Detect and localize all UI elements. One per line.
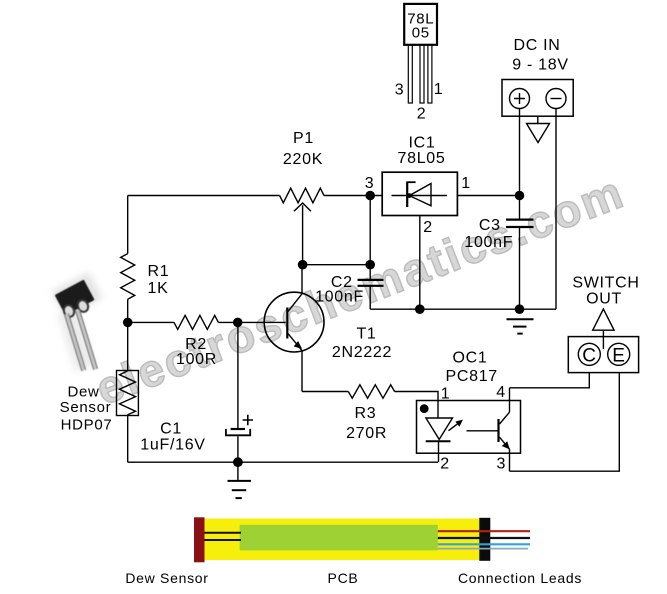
wire top rail: [128, 195, 280, 197]
label IC1 pin 2: [423, 219, 433, 236]
label R2 100R: [176, 336, 217, 368]
svg-text:1: 1: [434, 81, 444, 98]
DC IN terminal block: [502, 80, 573, 117]
label R1 1K: [148, 263, 170, 297]
label dew sensor HDP07: [60, 384, 113, 434]
wire sensor bottom to rail: [127, 416, 129, 463]
78L05 package outline: [404, 4, 437, 45]
OC1 internal LED: [426, 418, 453, 462]
svg-text:DC IN: DC IN: [513, 37, 560, 54]
caption Dew Sensor: [125, 570, 208, 586]
OC1 LED emission arrow: [449, 420, 463, 431]
wire OC1 pin3 to switch E: [510, 373, 620, 472]
IC regulator U IC1 box: [382, 172, 457, 215]
capacitor C3: [506, 196, 534, 310]
svg-text:1K: 1K: [148, 280, 169, 297]
svg-text:4: 4: [496, 384, 506, 401]
label SWITCH OUT: [572, 275, 639, 308]
wire ground rail: [370, 308, 556, 310]
label OC1 pin 1: [441, 386, 451, 403]
ground below C1: [228, 462, 252, 498]
wire IC1 pin1 to DC+ node: [457, 195, 519, 197]
label package pin 3: [395, 82, 405, 99]
plus symbol DC+: [514, 93, 525, 104]
ground below C3: [507, 319, 534, 333]
svg-text:OC1: OC1: [453, 350, 488, 367]
svg-text:100nF: 100nF: [464, 234, 513, 251]
svg-text:C: C: [582, 346, 596, 367]
caption PCB: [328, 570, 359, 586]
PCB body yellow: [205, 519, 480, 561]
PCB sensor end cap maroon: [194, 517, 205, 562]
svg-text:Dew Sensor: Dew Sensor: [125, 570, 208, 586]
wire wiper node to C2: [303, 264, 371, 266]
label T1 2N2222: [332, 326, 392, 362]
label C2 100nF: [315, 274, 364, 306]
wire node to R2: [128, 321, 174, 323]
IC1 internal diode symbol: [392, 182, 447, 208]
78L05 package pins: [408, 45, 432, 103]
svg-text:2: 2: [440, 456, 450, 473]
resistor R1: [121, 254, 135, 300]
wire DC- down to ground rail: [555, 109, 557, 310]
svg-text:1: 1: [441, 386, 451, 403]
label C1 1uF/16V: [140, 421, 205, 454]
svg-text:C1: C1: [160, 421, 182, 438]
svg-text:P1: P1: [293, 130, 314, 147]
label package pin 2: [417, 106, 427, 123]
svg-text:IC1: IC1: [409, 135, 436, 152]
wire OC1 pin4 to switch C: [510, 373, 590, 388]
wire bottom rail: [128, 461, 438, 463]
node IC1 pin2 ground: [415, 304, 425, 314]
wire R2 right to node: [218, 321, 237, 323]
label IC1 pin 1: [461, 175, 471, 192]
label P1 220K: [283, 130, 323, 168]
svg-text:270R: 270R: [346, 425, 387, 442]
svg-text:2: 2: [423, 219, 433, 236]
svg-text:3: 3: [395, 82, 405, 99]
watermark electroschematics.com: [88, 164, 631, 416]
svg-text:Dew: Dew: [67, 384, 99, 401]
OC1 internal phototransistor: [467, 388, 510, 471]
node C2 top junction: [298, 260, 308, 270]
wire T1 emitter to R3: [302, 391, 348, 393]
svg-text:100nF: 100nF: [315, 289, 364, 306]
connection lead black: [438, 537, 530, 539]
svg-text:1uF/16V: 1uF/16V: [140, 437, 205, 454]
dew sensor element HDP07: [117, 371, 139, 416]
PCB solder mask green: [240, 525, 438, 551]
svg-text:PCB: PCB: [328, 570, 359, 586]
label OC1 PC817: [445, 350, 497, 386]
label package pin 1: [434, 81, 444, 98]
svg-text:E: E: [612, 346, 625, 367]
svg-text:R1: R1: [148, 263, 170, 280]
wire R2 node to T1 base: [238, 321, 286, 323]
svg-text:R3: R3: [354, 405, 376, 422]
OC1 pin1 mark dot: [420, 404, 429, 413]
svg-text:1: 1: [461, 175, 471, 192]
wire left vertical (top rail to R1): [127, 196, 129, 254]
svg-text:3: 3: [496, 456, 506, 473]
label R3 270R: [346, 405, 387, 442]
dew sensor photograph: [44, 266, 114, 382]
minus symbol DC-: [551, 98, 562, 100]
label C3 100nF: [464, 217, 513, 251]
label 78L05 package text: [407, 10, 434, 41]
label OC1 pin 3: [496, 456, 506, 473]
svg-text:SWITCH: SWITCH: [572, 275, 639, 292]
node IC1 pin1 / DC+ / C3: [515, 191, 525, 201]
svg-text:9 - 18V: 9 - 18V: [512, 56, 569, 73]
wire node down to dew sensor: [127, 322, 129, 370]
svg-text:100R: 100R: [176, 351, 217, 368]
plus sign C1: [243, 415, 253, 425]
svg-text:T1: T1: [356, 326, 376, 343]
svg-text:3: 3: [365, 175, 375, 192]
potentiometer P1: [280, 188, 324, 264]
node R2 / base / C1: [233, 318, 243, 328]
transistor T1: [264, 265, 324, 392]
capacitor C2: [358, 265, 384, 310]
wire IC1 pin2 down to ground rail: [419, 216, 421, 310]
wire node down to C1: [237, 322, 239, 429]
switch out arrow: [593, 309, 614, 349]
svg-text:PC817: PC817: [445, 368, 497, 385]
wire DC+ down: [519, 109, 521, 196]
resistor R2: [174, 315, 218, 329]
caption Connection Leads: [458, 570, 582, 586]
svg-text:2: 2: [417, 106, 427, 123]
optocoupler OC1 box: [417, 401, 521, 454]
wire node down to C2 node: [369, 196, 371, 265]
svg-text:Sensor: Sensor: [60, 399, 112, 416]
svg-text:Connection Leads: Connection Leads: [458, 570, 582, 586]
node C1 ground: [233, 457, 243, 467]
PCB connector end cap black: [479, 518, 490, 561]
label terminal C: [582, 346, 596, 367]
wire P1 right to IC1 pin3: [324, 195, 382, 197]
svg-text:05: 05: [412, 25, 430, 42]
svg-text:HDP07: HDP07: [61, 417, 113, 434]
connection lead red: [438, 530, 530, 532]
node C2 / IC1 pin3 branch: [365, 260, 375, 270]
DC IN arrow: [527, 116, 550, 142]
PCB drawing: [194, 517, 530, 562]
label IC1 pin 3: [365, 175, 375, 192]
svg-text:OUT: OUT: [586, 291, 622, 308]
svg-text:2N2222: 2N2222: [332, 344, 392, 361]
switch out terminal block: [568, 337, 638, 373]
connection lead grey-blue: [438, 548, 528, 550]
svg-text:220K: 220K: [283, 151, 323, 168]
label DC IN 9-18V: [512, 37, 569, 73]
label terminal E: [612, 346, 625, 367]
label OC1 pin 2: [440, 456, 450, 473]
resistor R3: [348, 385, 394, 398]
capacitor C1 electrolytic: [226, 429, 250, 462]
wire R1 bottom to node: [127, 299, 129, 322]
node P1/IC1 junction: [365, 191, 375, 201]
label OC1 pin 4: [496, 384, 506, 401]
node C3 ground: [515, 304, 525, 314]
node R1/R2/sensor junction: [123, 318, 133, 328]
PCB sensor wires: [205, 532, 242, 534]
label IC1 78L05: [398, 135, 446, 168]
wire R3 to OC1 pin1: [395, 392, 439, 419]
svg-text:C3: C3: [479, 217, 501, 234]
connection lead cyan: [438, 543, 530, 545]
svg-text:78L05: 78L05: [398, 150, 446, 167]
